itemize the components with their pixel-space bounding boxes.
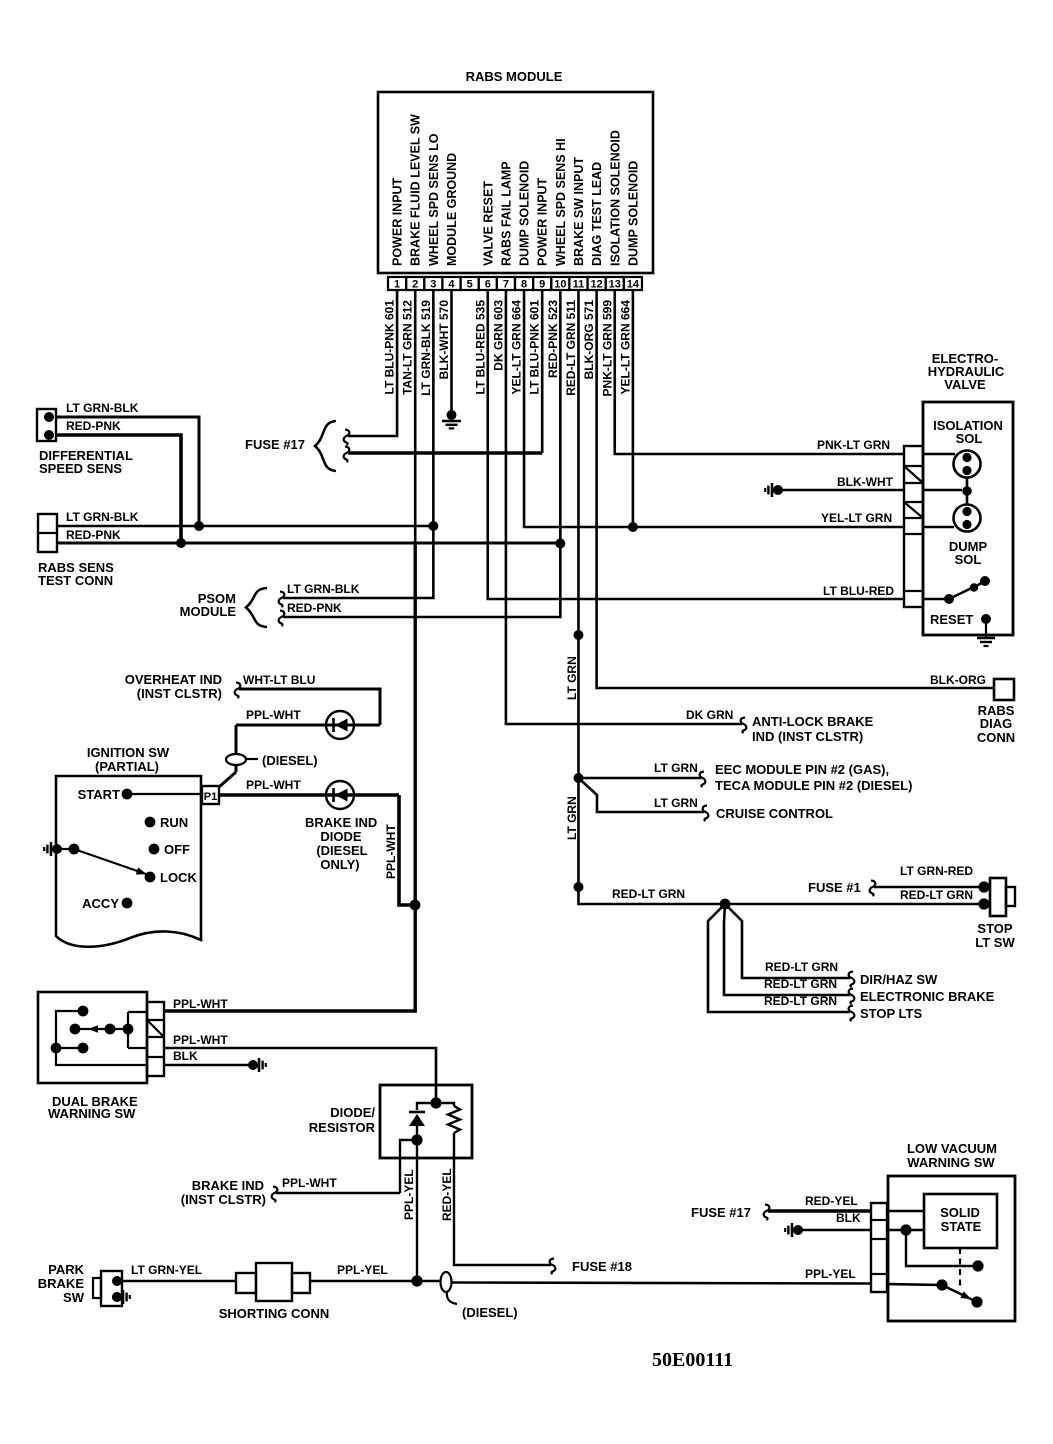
- svg-text:BLK-WHT 570: BLK-WHT 570: [437, 300, 451, 380]
- svg-text:6: 6: [485, 279, 491, 291]
- svg-text:WARNING SW: WARNING SW: [48, 1106, 136, 1121]
- svg-text:PPL-WHT: PPL-WHT: [246, 778, 301, 792]
- svg-text:FUSE #18: FUSE #18: [572, 1259, 632, 1274]
- svg-text:LT BLU-PNK 601: LT BLU-PNK 601: [528, 300, 542, 395]
- svg-text:PPL-YEL: PPL-YEL: [805, 1267, 856, 1281]
- svg-text:SHORTING CONN: SHORTING CONN: [219, 1306, 330, 1321]
- svg-text:DIODE/: DIODE/: [330, 1105, 375, 1120]
- svg-text:WHEEL SPD SENS HI: WHEEL SPD SENS HI: [554, 138, 568, 266]
- svg-text:LT SW: LT SW: [975, 935, 1015, 950]
- svg-text:CONN: CONN: [977, 730, 1015, 745]
- svg-text:LT GRN: LT GRN: [654, 761, 698, 775]
- svg-text:BRAKE IND: BRAKE IND: [305, 815, 377, 830]
- svg-text:12: 12: [590, 279, 602, 291]
- svg-text:WARNING SW: WARNING SW: [907, 1155, 995, 1170]
- svg-text:LT BLU-RED 535: LT BLU-RED 535: [473, 300, 487, 395]
- svg-text:ISOLATION SOLENOID: ISOLATION SOLENOID: [608, 130, 622, 266]
- svg-text:DIODE: DIODE: [320, 829, 362, 844]
- svg-text:DUMP SOLENOID: DUMP SOLENOID: [626, 161, 640, 266]
- svg-text:PPL-YEL: PPL-YEL: [337, 1263, 388, 1277]
- svg-text:7: 7: [503, 279, 509, 291]
- svg-text:10: 10: [554, 279, 566, 291]
- svg-text:START: START: [78, 787, 120, 802]
- svg-text:RABS FAIL LAMP: RABS FAIL LAMP: [499, 161, 513, 266]
- svg-text:SOL: SOL: [955, 552, 982, 567]
- svg-text:RED-LT GRN: RED-LT GRN: [764, 977, 837, 991]
- svg-text:(DIESEL: (DIESEL: [316, 843, 367, 858]
- svg-text:PPL-WHT: PPL-WHT: [384, 824, 398, 879]
- svg-text:13: 13: [609, 279, 621, 291]
- svg-text:IND (INST CLSTR): IND (INST CLSTR): [752, 729, 863, 744]
- svg-text:LT BLU-PNK 601: LT BLU-PNK 601: [383, 300, 397, 395]
- svg-text:RED-LT GRN: RED-LT GRN: [612, 887, 685, 901]
- svg-text:VALVE RESET: VALVE RESET: [481, 181, 495, 266]
- svg-text:LT GRN: LT GRN: [565, 656, 579, 700]
- svg-text:YEL-LT GRN 664: YEL-LT GRN 664: [510, 300, 524, 395]
- svg-text:9: 9: [539, 279, 545, 291]
- svg-text:DIR/HAZ SW: DIR/HAZ SW: [860, 972, 938, 987]
- svg-text:TECA MODULE PIN #2 (DIESEL): TECA MODULE PIN #2 (DIESEL): [715, 778, 912, 793]
- svg-text:SOLID: SOLID: [940, 1205, 980, 1220]
- svg-text:SPEED SENS: SPEED SENS: [39, 461, 122, 476]
- svg-text:DK GRN: DK GRN: [686, 708, 733, 722]
- svg-text:OVERHEAT IND: OVERHEAT IND: [125, 672, 222, 687]
- svg-text:FUSE #1: FUSE #1: [808, 880, 861, 895]
- svg-text:IGNITION SW: IGNITION SW: [87, 745, 170, 760]
- svg-text:RED-LT GRN: RED-LT GRN: [764, 994, 837, 1008]
- svg-text:PARK: PARK: [48, 1262, 84, 1277]
- svg-text:WHEEL SPD SENS LO: WHEEL SPD SENS LO: [427, 133, 441, 266]
- svg-text:STOP LTS: STOP LTS: [860, 1006, 922, 1021]
- svg-text:RESISTOR: RESISTOR: [309, 1120, 376, 1135]
- svg-text:BRAKE IND: BRAKE IND: [192, 1178, 264, 1193]
- svg-text:DIAG TEST LEAD: DIAG TEST LEAD: [590, 162, 604, 266]
- svg-text:DUMP SOLENOID: DUMP SOLENOID: [518, 161, 532, 266]
- svg-text:LOW VACUUM: LOW VACUUM: [907, 1141, 997, 1156]
- svg-text:PPL-WHT: PPL-WHT: [282, 1176, 337, 1190]
- svg-text:TEST CONN: TEST CONN: [38, 573, 113, 588]
- svg-text:MODULE GROUND: MODULE GROUND: [445, 153, 459, 266]
- svg-text:ONLY): ONLY): [320, 857, 359, 872]
- svg-text:VALVE: VALVE: [944, 377, 986, 392]
- svg-text:CRUISE CONTROL: CRUISE CONTROL: [716, 806, 833, 821]
- svg-text:RABS MODULE: RABS MODULE: [466, 69, 563, 84]
- svg-text:LT BLU-RED: LT BLU-RED: [823, 584, 894, 598]
- svg-text:14: 14: [627, 279, 640, 291]
- svg-text:11: 11: [573, 279, 585, 291]
- svg-text:RED-LT GRN 511: RED-LT GRN 511: [564, 300, 578, 396]
- svg-text:BLK-ORG 571: BLK-ORG 571: [582, 300, 596, 380]
- svg-text:LT GRN: LT GRN: [654, 796, 698, 810]
- svg-text:5: 5: [467, 279, 473, 291]
- svg-text:STATE: STATE: [941, 1219, 982, 1234]
- svg-text:8: 8: [521, 279, 527, 291]
- svg-text:P1: P1: [204, 791, 217, 803]
- svg-text:YEL-LT GRN: YEL-LT GRN: [821, 511, 892, 525]
- svg-text:LT GRN-BLK: LT GRN-BLK: [287, 582, 360, 596]
- svg-text:(DIESEL): (DIESEL): [262, 753, 318, 768]
- svg-text:4: 4: [448, 279, 455, 291]
- svg-text:BLK: BLK: [836, 1211, 861, 1225]
- svg-text:POWER INPUT: POWER INPUT: [536, 177, 550, 266]
- svg-text:SW: SW: [63, 1290, 85, 1305]
- svg-text:RED-PNK 523: RED-PNK 523: [546, 300, 560, 378]
- svg-text:PPL-WHT: PPL-WHT: [173, 997, 228, 1011]
- svg-text:BRAKE FLUID LEVEL SW: BRAKE FLUID LEVEL SW: [409, 114, 423, 266]
- svg-text:SOL: SOL: [956, 431, 983, 446]
- svg-text:2: 2: [412, 279, 418, 291]
- svg-text:RED-YEL: RED-YEL: [805, 1194, 858, 1208]
- svg-text:EEC MODULE PIN #2 (GAS),: EEC MODULE PIN #2 (GAS),: [715, 762, 889, 777]
- svg-text:(INST CLSTR): (INST CLSTR): [137, 686, 222, 701]
- svg-text:RESET: RESET: [930, 612, 973, 627]
- svg-text:FUSE #17: FUSE #17: [245, 437, 305, 452]
- svg-text:PPL-YEL: PPL-YEL: [402, 1169, 416, 1220]
- svg-text:LT GRN-YEL: LT GRN-YEL: [131, 1263, 202, 1277]
- svg-text:TAN-LT GRN 512: TAN-LT GRN 512: [401, 300, 415, 395]
- svg-text:BRAKE: BRAKE: [38, 1276, 85, 1291]
- svg-text:LT GRN-BLK: LT GRN-BLK: [66, 401, 139, 415]
- svg-text:OFF: OFF: [164, 842, 190, 857]
- svg-text:BLK-WHT: BLK-WHT: [837, 475, 894, 489]
- svg-text:RED-PNK: RED-PNK: [287, 601, 342, 615]
- svg-text:LT GRN-BLK: LT GRN-BLK: [66, 510, 139, 524]
- svg-text:RED-PNK: RED-PNK: [66, 419, 121, 433]
- svg-text:RED-YEL: RED-YEL: [440, 1168, 454, 1221]
- svg-text:RED-PNK: RED-PNK: [66, 528, 121, 542]
- svg-text:(DIESEL): (DIESEL): [462, 1305, 518, 1320]
- svg-text:ELECTRONIC BRAKE: ELECTRONIC BRAKE: [860, 989, 995, 1004]
- svg-text:ACCY: ACCY: [82, 896, 119, 911]
- svg-text:STOP: STOP: [977, 921, 1012, 936]
- svg-text:LT GRN-BLK 519: LT GRN-BLK 519: [419, 300, 433, 396]
- svg-text:LT GRN: LT GRN: [565, 796, 579, 840]
- svg-text:DIAG: DIAG: [980, 716, 1013, 731]
- svg-text:POWER INPUT: POWER INPUT: [391, 177, 405, 266]
- svg-text:(INST CLSTR): (INST CLSTR): [181, 1192, 266, 1207]
- svg-text:MODULE: MODULE: [180, 604, 237, 619]
- svg-text:50E00111: 50E00111: [652, 1349, 733, 1371]
- svg-text:RED-LT GRN: RED-LT GRN: [900, 888, 973, 902]
- svg-text:3: 3: [430, 279, 436, 291]
- svg-text:BRAKE SW INPUT: BRAKE SW INPUT: [572, 157, 586, 266]
- svg-text:(PARTIAL): (PARTIAL): [95, 759, 159, 774]
- svg-text:LT GRN-RED: LT GRN-RED: [900, 864, 973, 878]
- svg-text:WHT-LT BLU: WHT-LT BLU: [243, 673, 315, 687]
- svg-text:PNK-LT GRN 599: PNK-LT GRN 599: [600, 300, 614, 397]
- svg-text:PNK-LT GRN: PNK-LT GRN: [817, 438, 890, 452]
- svg-text:PPL-WHT: PPL-WHT: [173, 1033, 228, 1047]
- svg-text:DK GRN 603: DK GRN 603: [491, 300, 505, 371]
- svg-text:FUSE #17: FUSE #17: [691, 1205, 751, 1220]
- svg-text:1: 1: [394, 279, 400, 291]
- svg-text:BLK: BLK: [173, 1049, 198, 1063]
- svg-text:YEL-LT GRN 664: YEL-LT GRN 664: [618, 300, 632, 395]
- svg-text:RED-LT GRN: RED-LT GRN: [765, 960, 838, 974]
- svg-text:ANTI-LOCK BRAKE: ANTI-LOCK BRAKE: [752, 714, 874, 729]
- svg-text:LOCK: LOCK: [160, 870, 197, 885]
- svg-text:RUN: RUN: [160, 815, 188, 830]
- svg-text:BLK-ORG: BLK-ORG: [930, 673, 986, 687]
- svg-text:PPL-WHT: PPL-WHT: [246, 708, 301, 722]
